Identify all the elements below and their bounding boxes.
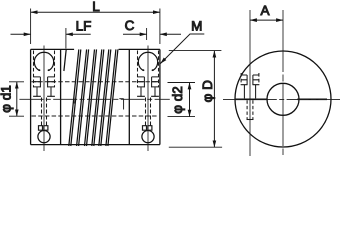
svg-text:M: M	[191, 18, 202, 33]
svg-text:φ D: φ D	[200, 80, 215, 103]
svg-text:C: C	[125, 18, 135, 33]
svg-text:A: A	[260, 3, 269, 18]
svg-text:LF: LF	[76, 19, 92, 34]
svg-text:φ d1: φ d1	[0, 85, 14, 113]
svg-text:φ d2: φ d2	[170, 86, 185, 114]
svg-text:L: L	[92, 0, 100, 14]
